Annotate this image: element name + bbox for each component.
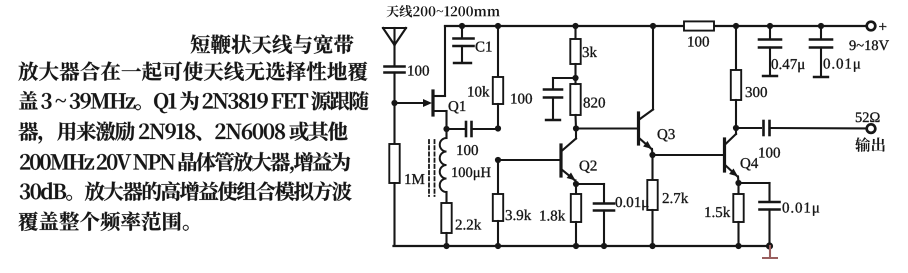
label Q2 [580, 161, 597, 173]
paragraph line 4 [19, 122, 348, 144]
label 100uH [452, 167, 490, 180]
node Q2 collector [573, 125, 579, 131]
label 300 [746, 87, 767, 97]
label 100 decoupling [511, 94, 532, 104]
capacitor 100 (antenna series) [385, 67, 405, 73]
label 3.9k [506, 210, 532, 221]
label 0.01u supply [824, 59, 861, 72]
label C1 [476, 42, 492, 52]
node Q1 source [443, 126, 449, 132]
transistor Q3 [639, 110, 654, 156]
label 100 supply resistor [688, 37, 709, 47]
ground symbol [763, 246, 777, 258]
inductor 100uH [440, 129, 447, 203]
label + [879, 23, 886, 30]
resistor 1M [389, 103, 399, 246]
capacitor 100 (decoupling at 820) [544, 78, 576, 120]
paragraph line 2 [18, 62, 367, 81]
node 3k-820 junction [572, 75, 578, 81]
transistor Q2 [561, 129, 576, 185]
label 9~18V [849, 40, 888, 50]
label 10k [468, 86, 489, 97]
node A (gate node) [391, 100, 397, 106]
capacitor 0.01u (supply bypass) [810, 23, 832, 77]
resistor 2.2k [441, 203, 451, 246]
resistor 100 (supply, horizontal) [684, 21, 714, 30]
label 3k [583, 47, 597, 58]
resistor 10k [493, 23, 503, 128]
node Q4 emitter [735, 180, 741, 186]
label 0.01u Q4 [783, 203, 820, 216]
capacitor 0.47u (supply bypass) [759, 23, 781, 76]
resistor 820 [570, 78, 580, 129]
label 820 [584, 98, 605, 108]
paragraph line 5 [20, 152, 350, 173]
capacitor 100 (Q1 coupling) [447, 122, 499, 136]
wire Q3 emitter to Q4 base [653, 154, 724, 156]
wire C-ant to node A [393, 73, 395, 104]
wire Q1 source down [445, 111, 447, 129]
paragraph line 6 [20, 182, 352, 201]
label 0.01u Q2 [616, 197, 649, 210]
inductor core dashed lines [429, 140, 435, 196]
node Q2 emitter [573, 181, 579, 187]
transistor Q1 (2N3819 JFET) [433, 91, 447, 115]
node coupling out [495, 125, 501, 131]
wire Q1 drain to top rail [444, 26, 446, 96]
junction dots on ground rail [443, 242, 773, 249]
label 100 coupling [457, 145, 478, 155]
node Q4 collector [733, 125, 739, 131]
label 1.5k [705, 207, 730, 218]
paragraph line 3 [19, 91, 369, 113]
terminal 52ohm output [867, 124, 876, 133]
antenna [383, 28, 406, 66]
terminal + 9-18V [867, 22, 876, 31]
label output 输出 [855, 137, 885, 152]
resistor 1.8k [571, 184, 581, 246]
top power rail [445, 25, 866, 27]
label 0.47u [772, 59, 805, 72]
capacitor 0.01u (Q4 emitter bypass) [739, 183, 780, 246]
label Q4 [741, 158, 758, 170]
label 1.8k [540, 210, 565, 221]
bottom ground rail [394, 245, 771, 247]
wire node A to Q1 gate [395, 99, 433, 107]
capacitor 100 (output coupling) [736, 121, 866, 135]
wire Q2 collector to Q3 base [576, 127, 637, 129]
capacitor 0.01u (Q2 emitter bypass) [576, 184, 614, 246]
paragraph line 7 [18, 211, 188, 230]
wire Q3 collector to rail [650, 23, 656, 110]
node Q3 emitter [649, 152, 655, 158]
resistor 3k [570, 23, 580, 78]
label 2.7k [663, 193, 689, 204]
paragraph line 1 [191, 35, 354, 54]
resistor 3.9k [493, 160, 503, 246]
label 100 antenna cap [408, 66, 429, 76]
label 1M [405, 174, 424, 184]
capacitor C1 [454, 23, 474, 63]
label Q1 [449, 101, 466, 113]
label Q3 [658, 129, 675, 141]
resistor 1.5k [733, 183, 743, 246]
wire node to Q2 base [495, 157, 560, 163]
resistor 300 [731, 23, 741, 128]
label antenna size 天线200~1200mm [386, 5, 499, 17]
label 2.2k [456, 219, 482, 230]
transistor Q4 [725, 128, 739, 183]
label 52ohm [856, 112, 880, 122]
label 100 output [759, 148, 780, 158]
resistor 2.7k [647, 155, 657, 246]
